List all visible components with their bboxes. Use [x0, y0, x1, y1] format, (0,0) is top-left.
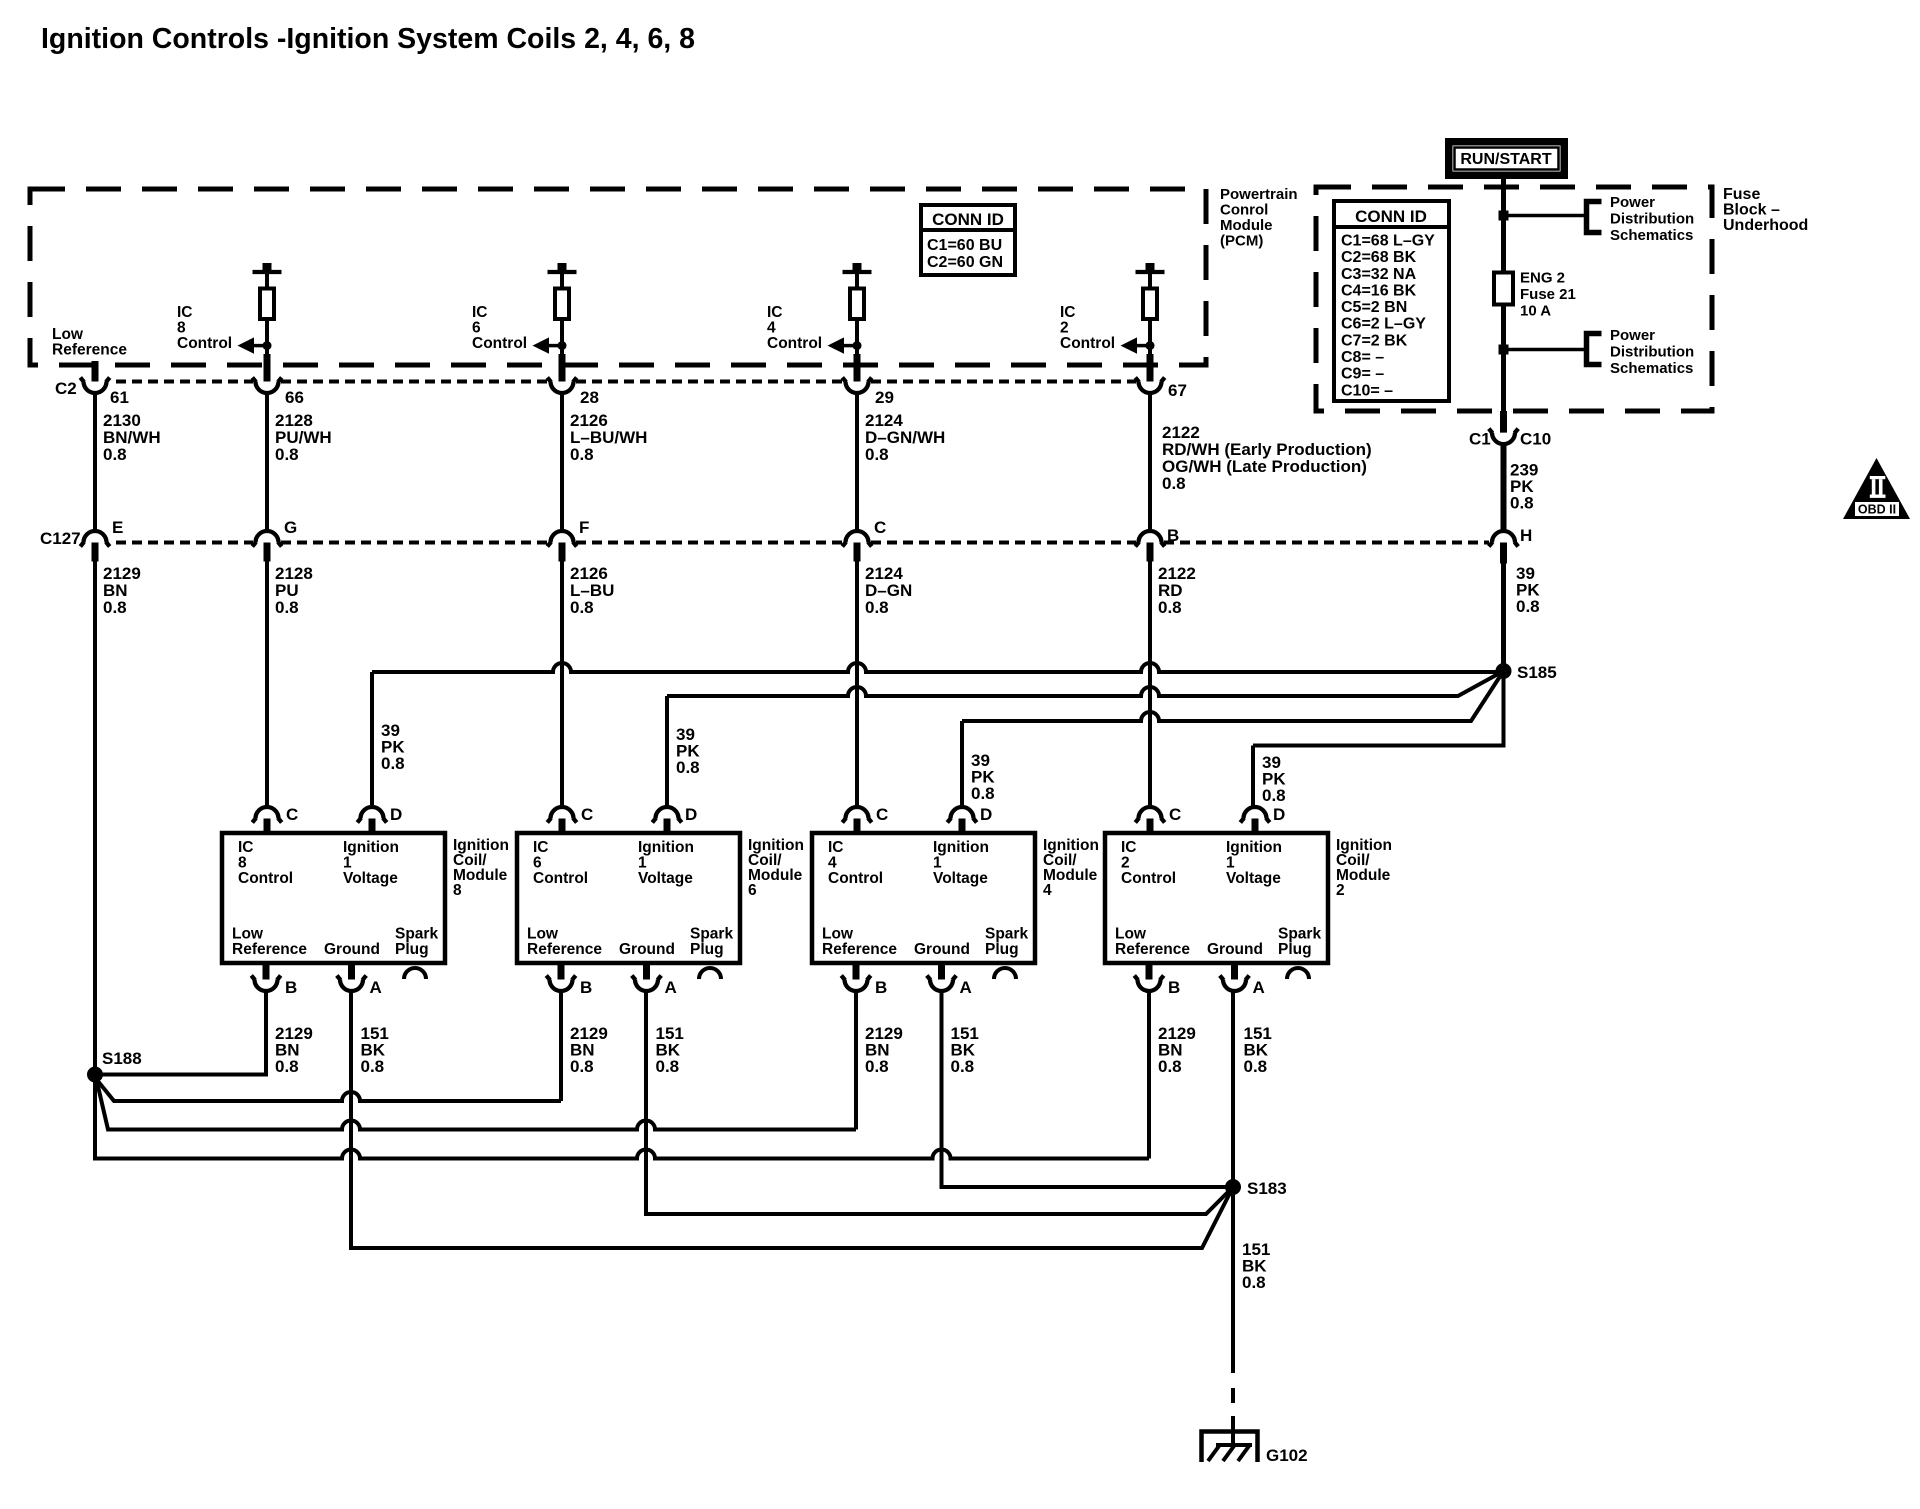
- label: Ground (coil 4): [914, 941, 970, 958]
- svg-text:Block –: Block –: [1723, 202, 1780, 219]
- svg-text:CONN ID: CONN ID: [1355, 207, 1427, 226]
- svg-text:IC: IC: [533, 839, 549, 856]
- svg-text:0.8: 0.8: [570, 445, 594, 464]
- svg-text:C10: C10: [1520, 430, 1551, 449]
- svg-text:67: 67: [1168, 381, 1187, 400]
- connector C127 pin C: [846, 531, 869, 543]
- svg-text:(PCM): (PCM): [1220, 233, 1263, 250]
- svg-text:Low: Low: [232, 926, 264, 943]
- label C2: [55, 379, 77, 398]
- connector: coil 6 pin B: [558, 963, 565, 984]
- splice S183: [1226, 1180, 1241, 1195]
- junction: branch to Power Distribution (upper): [1499, 211, 1509, 221]
- svg-text:Low: Low: [822, 926, 854, 943]
- svg-text:4: 4: [828, 855, 837, 872]
- wire: coil 4 pin A to S183 (151 BK): [942, 992, 1234, 1188]
- wire 2128 PU (to coil module): [265, 562, 269, 807]
- svg-text:Schematics: Schematics: [1610, 227, 1693, 244]
- svg-text:C7=2 BK: C7=2 BK: [1341, 332, 1408, 349]
- svg-text:0.8: 0.8: [1262, 786, 1286, 805]
- wire: S185 feed line to coil 2 (39 PK): [1253, 671, 1504, 746]
- wire: IC 8 control through PCM case: [264, 354, 271, 385]
- svg-text:10 A: 10 A: [1520, 303, 1551, 320]
- resistor: IC 6 pull-up inside PCM: [548, 263, 577, 354]
- svg-text:S185: S185: [1517, 663, 1557, 682]
- svg-text:Plug: Plug: [1278, 941, 1312, 958]
- svg-text:0.8: 0.8: [865, 598, 889, 617]
- connector: coil 4 pin D: [951, 807, 974, 819]
- label: IC 2 Control (PCM internal): [1060, 304, 1115, 352]
- svg-text:4: 4: [1043, 882, 1052, 899]
- svg-text:C: C: [1169, 805, 1181, 824]
- label: 151 BK 0.8 (coil 2 ground): [1244, 1024, 1272, 1076]
- svg-text:Reference: Reference: [1115, 941, 1190, 958]
- svg-text:ENG 2: ENG 2: [1520, 270, 1565, 287]
- ground G102 symbol: [1202, 1432, 1258, 1463]
- Fuse Block - Underhood dashed outline: [1316, 187, 1712, 411]
- connector: coil 4 pin B: [853, 963, 860, 984]
- svg-text:0.8: 0.8: [275, 1057, 299, 1076]
- arrow: IC 8 Control output: [238, 337, 272, 353]
- svg-text:0.8: 0.8: [570, 598, 594, 617]
- svg-text:C10= –: C10= –: [1341, 382, 1393, 399]
- label: Spark Plug (coil 6): [690, 926, 733, 959]
- label: 2129 BN 0.8 (coil 4 low ref): [865, 1024, 903, 1076]
- wire 2129 BN 0.8 (to S188): [93, 562, 97, 1075]
- svg-text:H: H: [1520, 526, 1532, 545]
- connector: coil 4 pin C: [846, 807, 869, 819]
- connector: coil 8 pin A: [348, 963, 355, 984]
- svg-text:Control: Control: [828, 870, 883, 887]
- connector: coil 2 pin A: [1231, 963, 1238, 984]
- connector: coil 2 pin C: [1139, 807, 1162, 819]
- wire: fuse to fuse-block exit: [1501, 305, 1506, 413]
- svg-text:Plug: Plug: [690, 941, 724, 958]
- svg-text:D: D: [980, 805, 992, 824]
- wire 151 BK 0.8 to ground: [1231, 1187, 1235, 1373]
- label: Low Reference (coil 4): [822, 926, 897, 959]
- label: Ignition 1 Voltage (coil 8): [343, 839, 399, 887]
- label: 151 BK 0.8 (coil 8 ground): [361, 1024, 389, 1076]
- svg-text:IC: IC: [238, 839, 254, 856]
- svg-text:29: 29: [875, 388, 894, 407]
- svg-text:8: 8: [238, 855, 247, 872]
- svg-text:C8= –: C8= –: [1341, 349, 1384, 366]
- svg-text:Low: Low: [52, 326, 84, 343]
- resistor: IC 4 pull-up inside PCM: [843, 263, 872, 354]
- label: 2129 BN 0.8 (coil 8 low ref): [275, 1024, 313, 1076]
- label: Spark Plug (coil 8): [395, 926, 438, 959]
- svg-text:Control: Control: [1060, 335, 1115, 352]
- wire: S188 to coil 6 pin B (2129 BN): [97, 1080, 561, 1101]
- svg-text:Spark: Spark: [985, 926, 1028, 943]
- svg-text:0.8: 0.8: [865, 1057, 889, 1076]
- svg-text:Control: Control: [1121, 870, 1176, 887]
- svg-text:0.8: 0.8: [275, 598, 299, 617]
- label: Spark Plug (coil 4): [985, 926, 1028, 959]
- svg-text:IC: IC: [177, 304, 193, 321]
- label: 2129 BN 0.8 (coil 2 low ref): [1158, 1024, 1196, 1076]
- label: Ignition 1 Voltage (coil 2): [1226, 839, 1282, 887]
- label: Ground (coil 6): [619, 941, 675, 958]
- label: IC 6 Control (coil input): [533, 839, 588, 887]
- wire 2122 RD (to coil module): [1148, 562, 1152, 807]
- spark plug arc (coil 2): [1287, 968, 1309, 979]
- wire 2130 BN/WH 0.8: [93, 394, 97, 531]
- svg-text:Ignition: Ignition: [638, 839, 694, 856]
- label: IC 4 Control (coil input): [828, 839, 883, 887]
- svg-text:Spark: Spark: [1278, 926, 1321, 943]
- label: IC 6 Control (PCM internal): [472, 304, 527, 352]
- svg-text:C5=2 BN: C5=2 BN: [1341, 299, 1407, 316]
- svg-text:0.8: 0.8: [1158, 598, 1182, 617]
- svg-text:0.8: 0.8: [1158, 1057, 1182, 1076]
- svg-text:C6=2 L–GY: C6=2 L–GY: [1341, 316, 1426, 333]
- svg-text:1: 1: [343, 855, 352, 872]
- svg-text:Distribution: Distribution: [1610, 211, 1694, 228]
- svg-text:0.8: 0.8: [381, 754, 405, 773]
- svg-text:IC: IC: [767, 304, 783, 321]
- svg-text:S188: S188: [102, 1049, 142, 1068]
- label: 39 PK 0.8 (below H): [1516, 564, 1540, 616]
- connector: coil 6 pin A: [643, 963, 650, 984]
- fuse ENG 2 Fuse 21 10A: [1494, 273, 1513, 305]
- title: Ignition Controls - Ignition System Coils 2,4,6,8: [41, 23, 695, 55]
- arrow: IC 2 Control output: [1121, 337, 1155, 353]
- label: Ground (coil 8): [324, 941, 380, 958]
- svg-text:6: 6: [533, 855, 542, 872]
- svg-text:Control: Control: [767, 335, 822, 352]
- wire: S185 feed line to coil 4 (39 PK): [962, 671, 1504, 721]
- svg-text:Ground: Ground: [1207, 941, 1263, 958]
- RUN/START switch feed box: [1445, 138, 1568, 179]
- wire: S188 to coil 2 pin B (2129 BN): [95, 1075, 1149, 1159]
- svg-text:C2=60 GN: C2=60 GN: [927, 254, 1003, 271]
- wire 239 PK 0.8: [1501, 444, 1507, 531]
- svg-text:0.8: 0.8: [103, 598, 127, 617]
- svg-text:0.8: 0.8: [570, 1057, 594, 1076]
- svg-text:2: 2: [1336, 882, 1345, 899]
- svg-text:IC: IC: [1060, 304, 1076, 321]
- wire: 39 PK drop to coil 4 pin D: [960, 721, 964, 807]
- wire 2124 D–GN (to coil module): [855, 562, 859, 807]
- svg-text:B: B: [1168, 978, 1180, 997]
- wire: S185 feed line to coil 6 (39 PK): [667, 671, 1504, 696]
- svg-text:0.8: 0.8: [361, 1057, 385, 1076]
- svg-text:C9= –: C9= –: [1341, 366, 1384, 383]
- svg-text:Ignition: Ignition: [1226, 839, 1282, 856]
- wire 2124 D–GN/WH: [855, 394, 859, 531]
- svg-text:E: E: [112, 518, 123, 537]
- wire: 39 PK drop to coil 6 pin D: [665, 696, 669, 807]
- resistor: IC 8 pull-up inside PCM: [253, 263, 282, 354]
- svg-text:Control: Control: [238, 870, 293, 887]
- bracket: Power Distribution Schematics (lower): [1587, 334, 1602, 365]
- arrow: IC 6 Control output: [533, 337, 567, 353]
- connector C2 pin 67: [1139, 382, 1162, 394]
- connector C2 pin 29: [846, 382, 869, 394]
- connector C1 | C10: [1492, 433, 1515, 445]
- ignition coil/module 4 box: [812, 833, 1035, 963]
- svg-text:Reference: Reference: [232, 941, 307, 958]
- svg-text:4: 4: [767, 320, 776, 337]
- svg-text:0.8: 0.8: [676, 758, 700, 777]
- wire: coil 4 B drop: [854, 992, 858, 1130]
- label: 2129 BN 0.8 (coil 6 low ref): [570, 1024, 608, 1076]
- svg-text:Schematics: Schematics: [1610, 360, 1693, 377]
- svg-text:Ignition: Ignition: [343, 839, 399, 856]
- label: Ignition Coil/Module 2: [1336, 837, 1392, 899]
- svg-text:Low: Low: [1115, 926, 1147, 943]
- label C127: [40, 529, 81, 548]
- splice S185: [1496, 664, 1511, 679]
- svg-text:C: C: [876, 805, 888, 824]
- connector: coil 8 pin B: [263, 963, 270, 984]
- connector: coil 6 pin D: [656, 807, 679, 819]
- wire: branch to Power Distribution Schematics (upper): [1507, 214, 1586, 218]
- label: IC 8 Control (coil input): [238, 839, 293, 887]
- label: 2129 BN 0.8: [103, 564, 141, 617]
- svg-text:Ignition: Ignition: [933, 839, 989, 856]
- wire: coil 2 B drop: [1147, 992, 1151, 1159]
- label: Low Reference (coil 6): [527, 926, 602, 959]
- label: Low Reference (coil 8): [232, 926, 307, 959]
- svg-text:0.8: 0.8: [1516, 597, 1540, 616]
- wire: branch to Power Distribution Schematics (lower): [1507, 348, 1586, 352]
- svg-text:G102: G102: [1266, 1446, 1308, 1465]
- label: Ground (coil 2): [1207, 941, 1263, 958]
- wire: RUN/START feed vertical: [1501, 179, 1506, 273]
- svg-text:C3=32 NA: C3=32 NA: [1341, 266, 1417, 283]
- svg-text:RUN/START: RUN/START: [1460, 151, 1551, 168]
- svg-text:Fuse 21: Fuse 21: [1520, 286, 1576, 303]
- connector C2 pin 66: [256, 382, 279, 394]
- connector C2 pin 28: [551, 382, 574, 394]
- label: IC 2 Control (coil input): [1121, 839, 1176, 887]
- svg-text:2: 2: [1060, 320, 1069, 337]
- svg-text:1: 1: [933, 855, 942, 872]
- wire 2128 PU/WH: [265, 394, 269, 531]
- connector: coil 6 pin C: [551, 807, 574, 819]
- svg-text:28: 28: [580, 388, 599, 407]
- svg-text:A: A: [1253, 978, 1265, 997]
- label: 2130 BN/WH 0.8: [103, 411, 161, 464]
- svg-text:IC: IC: [472, 304, 488, 321]
- svg-text:B: B: [1167, 526, 1179, 545]
- svg-text:0.8: 0.8: [865, 445, 889, 464]
- svg-text:Voltage: Voltage: [933, 870, 988, 887]
- svg-text:8: 8: [177, 320, 186, 337]
- label: IC 4 Control (PCM internal): [767, 304, 822, 352]
- svg-text:Ground: Ground: [324, 941, 380, 958]
- wire 2126 L–BU (to coil module): [560, 562, 564, 807]
- svg-text:0.8: 0.8: [951, 1057, 975, 1076]
- label: Ignition Coil/Module 8: [453, 837, 509, 899]
- connector: coil 8 pin C: [256, 807, 279, 819]
- connector C127 pin F: [551, 531, 574, 543]
- wire: IC 2 control through PCM case: [1147, 354, 1154, 385]
- wire 2126 L–BU/WH: [560, 394, 564, 531]
- svg-text:C4=16 BK: C4=16 BK: [1341, 282, 1417, 299]
- label: 151 BK 0.8 (coil 6 ground): [656, 1024, 684, 1076]
- label: Power Distribution Schematics (lower): [1610, 327, 1694, 377]
- svg-text:CONN ID: CONN ID: [932, 210, 1004, 229]
- wire: coil 6 B drop: [559, 992, 563, 1102]
- label: 239 PK 0.8: [1510, 461, 1538, 513]
- PCM CONN ID table: [921, 205, 1015, 275]
- arrow: IC 4 Control output: [828, 337, 862, 353]
- svg-text:Voltage: Voltage: [1226, 870, 1281, 887]
- svg-text:B: B: [285, 978, 297, 997]
- svg-text:0.8: 0.8: [1162, 474, 1186, 493]
- Powertrain Control Module (PCM) dashed outline: [30, 189, 1206, 365]
- junction: branch to Power Distribution (lower): [1499, 345, 1509, 355]
- svg-text:C2=68 BK: C2=68 BK: [1341, 249, 1417, 266]
- wire: stub into C1|C10 connector: [1500, 411, 1507, 437]
- svg-text:F: F: [579, 518, 589, 537]
- label: IC 8 Control (PCM internal): [177, 304, 232, 352]
- svg-text:D: D: [390, 805, 402, 824]
- resistor: IC 2 pull-up inside PCM: [1136, 263, 1165, 354]
- wire: Low Reference exits PCM: [92, 361, 99, 385]
- label: Low Reference (PCM pin): [52, 326, 127, 359]
- svg-text:Voltage: Voltage: [343, 870, 398, 887]
- PCM label: [1220, 186, 1298, 250]
- wire: IC 4 control through PCM case: [854, 354, 861, 385]
- label G102: [1266, 1446, 1308, 1465]
- svg-text:0.8: 0.8: [1244, 1057, 1268, 1076]
- svg-text:C: C: [874, 518, 886, 537]
- ignition coil/module 8 box: [222, 833, 445, 963]
- svg-text:Control: Control: [472, 335, 527, 352]
- svg-text:C: C: [286, 805, 298, 824]
- svg-text:IC: IC: [828, 839, 844, 856]
- connector C127 pin E: [84, 531, 107, 543]
- svg-text:Conrol: Conrol: [1220, 202, 1268, 219]
- svg-text:Distribution: Distribution: [1610, 344, 1694, 361]
- wire: coil 8 pin A to S183 (151 BK): [351, 992, 1233, 1249]
- svg-text:B: B: [580, 978, 592, 997]
- wire: IC 6 control through PCM case: [559, 354, 566, 385]
- svg-text:Low: Low: [527, 926, 559, 943]
- svg-text:D: D: [685, 805, 697, 824]
- svg-text:G: G: [284, 518, 297, 537]
- wire 2122 RD/WH (Early Production): [1148, 394, 1152, 531]
- svg-text:0.8: 0.8: [1242, 1273, 1266, 1292]
- svg-text:C127: C127: [40, 529, 81, 548]
- bracket: Power Distribution Schematics (upper): [1587, 202, 1602, 233]
- svg-text:C1: C1: [1469, 430, 1491, 449]
- svg-text:A: A: [960, 978, 972, 997]
- svg-text:Reference: Reference: [822, 941, 897, 958]
- connector: coil 2 pin D: [1244, 807, 1267, 819]
- connector: coil 8 pin D: [361, 807, 384, 819]
- svg-text:0.8: 0.8: [1510, 494, 1534, 513]
- svg-text:Ground: Ground: [619, 941, 675, 958]
- svg-text:C2: C2: [55, 379, 77, 398]
- svg-text:Control: Control: [177, 335, 232, 352]
- svg-text:Ground: Ground: [914, 941, 970, 958]
- spark plug arc (coil 6): [699, 968, 721, 979]
- label: Power Distribution Schematics (upper): [1610, 194, 1694, 244]
- svg-text:Power: Power: [1610, 327, 1655, 344]
- svg-text:Plug: Plug: [395, 941, 429, 958]
- svg-text:0.8: 0.8: [275, 445, 299, 464]
- svg-text:Power: Power: [1610, 194, 1655, 211]
- svg-text:6: 6: [748, 882, 757, 899]
- label: Ignition Coil/Module 6: [748, 837, 804, 899]
- svg-text:OG/WH (Late Production): OG/WH (Late Production): [1162, 457, 1367, 476]
- wire 39 PK 0.8 (to S185): [1501, 564, 1506, 672]
- svg-text:0.8: 0.8: [971, 784, 995, 803]
- label: 151 BK 0.8 (coil 4 ground): [951, 1024, 979, 1076]
- svg-text:Reference: Reference: [527, 941, 602, 958]
- connector: coil 2 pin B: [1146, 963, 1153, 984]
- ignition coil/module 2 box: [1105, 833, 1328, 963]
- svg-text:A: A: [370, 978, 382, 997]
- svg-text:D: D: [1273, 805, 1285, 824]
- label: Ignition 1 Voltage (coil 6): [638, 839, 694, 887]
- label: Ignition 1 Voltage (coil 4): [933, 839, 989, 887]
- wire: 39 PK drop to coil 2 pin D: [1251, 746, 1255, 807]
- svg-text:Fuse: Fuse: [1723, 186, 1760, 203]
- svg-text:0.8: 0.8: [103, 445, 127, 464]
- svg-text:OBD II: OBD II: [1858, 503, 1896, 517]
- wire: harness break (dashed): [1231, 1388, 1235, 1403]
- wire: S188 to coil 8 pin B (2129 BN): [95, 992, 266, 1075]
- connector C2 pin 61: [84, 382, 107, 394]
- wire: S188 to coil 4 pin B (2129 BN): [97, 1082, 856, 1130]
- svg-text:Spark: Spark: [395, 926, 438, 943]
- ignition coil/module 6 box: [517, 833, 740, 963]
- svg-text:8: 8: [453, 882, 462, 899]
- Fuse Block label: [1723, 186, 1808, 234]
- svg-text:B: B: [875, 978, 887, 997]
- OBD II symbol: [1843, 458, 1910, 519]
- svg-text:Ignition Controls -Ignition Sy: Ignition Controls -Ignition System Coils…: [41, 23, 695, 55]
- svg-text:Underhood: Underhood: [1723, 217, 1808, 234]
- label: Ignition Coil/Module 4: [1043, 837, 1099, 899]
- wire: coil 2 pin A to S183 (151 BK): [1231, 992, 1235, 1188]
- svg-text:Control: Control: [533, 870, 588, 887]
- svg-text:66: 66: [285, 388, 304, 407]
- label: Spark Plug (coil 2): [1278, 926, 1321, 959]
- label: Low Reference (coil 2): [1115, 926, 1190, 959]
- svg-text:S183: S183: [1247, 1179, 1287, 1198]
- spark plug arc (coil 8): [404, 968, 426, 979]
- splice S188: [88, 1067, 103, 1082]
- connector C127 pin H: [1492, 531, 1515, 543]
- connector C127 pin B: [1139, 531, 1162, 543]
- svg-text:C1=60 BU: C1=60 BU: [927, 237, 1002, 254]
- svg-text:6: 6: [472, 320, 481, 337]
- svg-text:Module: Module: [1220, 217, 1273, 234]
- Fuse block CONN ID table: [1334, 201, 1449, 401]
- connector row C2 dotted line: [116, 380, 253, 384]
- svg-text:IC: IC: [1121, 839, 1137, 856]
- svg-text:1: 1: [1226, 855, 1235, 872]
- wire: 39 PK drop to coil 8 pin D: [370, 672, 374, 807]
- svg-text:Powertrain: Powertrain: [1220, 186, 1298, 203]
- svg-text:Reference: Reference: [52, 342, 127, 359]
- wire: coil 6 pin A to S183 (151 BK): [646, 992, 1233, 1215]
- svg-text:1: 1: [638, 855, 647, 872]
- connector: coil 4 pin A: [938, 963, 945, 984]
- svg-text:2: 2: [1121, 855, 1130, 872]
- svg-text:A: A: [665, 978, 677, 997]
- spark plug arc (coil 4): [994, 968, 1016, 979]
- svg-text:C: C: [581, 805, 593, 824]
